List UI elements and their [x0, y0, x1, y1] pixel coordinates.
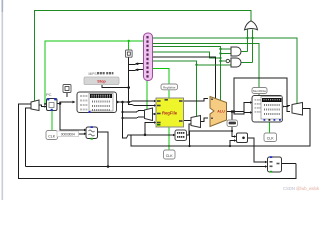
svg-text:CLK: CLK	[267, 137, 275, 141]
svg-text:PC: PC	[46, 92, 52, 97]
svg-text:CLK: CLK	[166, 154, 174, 158]
svg-text:MIPS: MIPS	[89, 72, 98, 76]
svg-text:MemWrite: MemWrite	[253, 89, 267, 93]
svg-text:Stop: Stop	[97, 80, 106, 84]
svg-text:00000004: 00000004	[61, 132, 75, 136]
svg-text:RegWrite: RegWrite	[163, 85, 176, 89]
svg-text:CSDN @lwb_wslxk: CSDN @lwb_wslxk	[283, 186, 320, 191]
svg-text:ALU: ALU	[217, 110, 225, 114]
svg-text:RegFile: RegFile	[162, 111, 178, 116]
svg-text:CLK: CLK	[48, 134, 56, 138]
